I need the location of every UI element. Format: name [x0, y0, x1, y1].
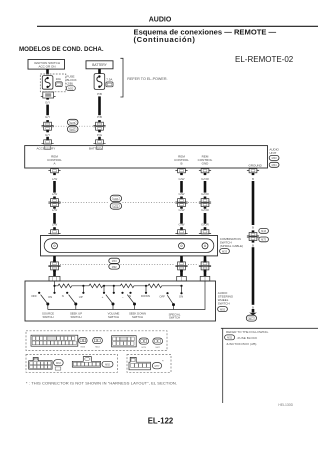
- svg-text:G/W: G/W: [179, 192, 185, 196]
- wire G/Y: [46, 105, 49, 116]
- REM CONTROL B: [174, 155, 189, 166]
- svg-text:G/OR: G/OR: [201, 192, 210, 196]
- wire G/W: [180, 213, 183, 224]
- svg-text:L/W: L/W: [52, 177, 58, 181]
- svg-text:B: B: [252, 305, 254, 309]
- svg-text:M47: M47: [70, 129, 75, 132]
- svg-text:G/W: G/W: [179, 208, 185, 212]
- refer following rule: [221, 327, 318, 329]
- steering switch ref oval: [218, 307, 228, 312]
- spiral contact circle left: [52, 243, 58, 249]
- connector ref oval M47: [67, 126, 78, 132]
- svg-text:SWITCH: SWITCH: [70, 315, 81, 319]
- REM CONTROL GND: [198, 155, 213, 166]
- wire stub to audio unit: [46, 137, 49, 140]
- wire G/OR: [204, 213, 207, 224]
- connector pair row2 right: [199, 197, 211, 209]
- resistor R1: [55, 284, 84, 288]
- fuse block label: [67, 75, 77, 86]
- svg-text:G/Y: G/Y: [45, 115, 50, 119]
- body ground symbol: [249, 309, 257, 316]
- battery box: [86, 61, 113, 69]
- svg-text:M32: M32: [68, 86, 74, 90]
- svg-text:SWITCH: SWITCH: [108, 315, 119, 319]
- svg-text:M33: M33: [112, 260, 117, 263]
- BAT pin connector on audio unit: [93, 140, 105, 144]
- header rule: [37, 25, 318, 27]
- svg-text:M92: M92: [220, 307, 226, 311]
- refer oval M32: [225, 335, 235, 340]
- svg-text:ON: ON: [179, 294, 183, 298]
- svg-text:G/W: G/W: [179, 223, 185, 227]
- ground bus bottom: [48, 281, 205, 310]
- svg-text:M92: M92: [105, 364, 110, 367]
- fuse F2 7.5A: [94, 74, 105, 90]
- seek up switch: [66, 286, 84, 310]
- wire below spiral left: [53, 256, 56, 262]
- svg-text:M44: M44: [272, 163, 278, 167]
- refer to EL-POWER bracket: [120, 58, 123, 97]
- svg-text:SWITCH: SWITCH: [132, 315, 143, 319]
- connector ref oval row2 bottom: [110, 203, 121, 209]
- connector layout dashed box row2 left: [26, 355, 118, 373]
- svg-text:P/B: P/B: [97, 92, 102, 96]
- svg-text:B: B: [252, 177, 254, 181]
- wire ignition to fuse: [46, 69, 49, 74]
- pin REM A below box: [48, 169, 60, 176]
- pin box at switch top left: [49, 276, 60, 281]
- node: bus junction dots: [53, 285, 182, 287]
- connector ref oval row2 top: [110, 195, 121, 201]
- svg-text:M43: M43: [113, 198, 118, 201]
- svg-text:M75: M75: [113, 206, 118, 209]
- svg-text:(Continuación): (Continuación): [134, 35, 196, 44]
- harness dashed line row2: [60, 202, 199, 204]
- spiral cable inner stadium: [44, 239, 214, 253]
- pin REM GND below box: [199, 169, 211, 176]
- svg-text:G/W: G/W: [179, 177, 185, 181]
- oval ref M33: [54, 360, 64, 366]
- svg-text:SWITCH: SWITCH: [42, 315, 53, 319]
- svg-text:(J/B): (J/B): [67, 81, 73, 85]
- svg-text:M77: M77: [249, 318, 254, 321]
- svg-text:+: +: [102, 295, 104, 299]
- svg-text:JUNCTION BOX (J/B): JUNCTION BOX (J/B): [226, 342, 256, 346]
- svg-text:EL-REMOTE-02: EL-REMOTE-02: [235, 55, 294, 64]
- svg-text:N: N: [129, 294, 131, 298]
- svg-text:BATTERY: BATTERY: [92, 63, 107, 67]
- connector grid M47: [112, 336, 137, 347]
- audio unit ref oval M44: [269, 162, 279, 167]
- connector grid M32: [31, 335, 78, 346]
- cross connector M92: [72, 357, 100, 368]
- spiral contact circle right: [202, 243, 208, 249]
- wire into switch: [204, 270, 207, 277]
- spiral contact circle mid: [179, 243, 185, 249]
- svg-text:M43: M43: [272, 156, 278, 160]
- connector into spiral cable: [175, 230, 187, 234]
- oval connector M44: [93, 337, 103, 348]
- combination switch spiral cable box: [41, 236, 218, 256]
- volume switch: [103, 286, 124, 310]
- svg-text:B: B: [180, 161, 182, 165]
- connector into spiral cable: [48, 230, 60, 234]
- wire into switch: [180, 270, 183, 277]
- svg-text:BATTERY: BATTERY: [89, 147, 103, 151]
- connector pair M75 (ignition feed): [42, 120, 54, 132]
- connector pair row2 left: [48, 197, 60, 209]
- special switch: [166, 286, 182, 310]
- svg-text:HEL130D: HEL130D: [278, 403, 293, 407]
- fuse block ref oval M32: [66, 86, 75, 91]
- wire below spiral right: [204, 256, 207, 262]
- svg-text:G/OR: G/OR: [201, 177, 210, 181]
- fuse number box 3: [56, 82, 63, 87]
- svg-text:N: N: [62, 294, 64, 298]
- svg-text:(SPIRAL CABLE): (SPIRAL CABLE): [220, 244, 243, 248]
- svg-text:EL-122: EL-122: [148, 416, 174, 425]
- switch name labels: [42, 312, 181, 320]
- svg-text:MODELOS DE COND. DCHA.: MODELOS DE COND. DCHA.: [19, 46, 104, 53]
- harness dashed line row1: [53, 125, 93, 127]
- svg-text:M33: M33: [56, 362, 61, 365]
- svg-text:AUDIO: AUDIO: [149, 17, 172, 24]
- pin box at switch top right: [200, 276, 210, 281]
- pin box at switch top mid: [177, 276, 187, 281]
- svg-text:ACCESSORY: ACCESSORY: [37, 147, 56, 151]
- svg-text:M75: M75: [70, 122, 75, 125]
- ground ref oval upper: [259, 229, 269, 234]
- svg-text:M32: M32: [227, 336, 233, 340]
- svg-text:P/G: P/G: [97, 133, 103, 137]
- source switch: [38, 292, 56, 310]
- svg-text:OFF: OFF: [31, 294, 37, 298]
- svg-text:-FUSE BLOCK: -FUSE BLOCK: [237, 336, 259, 340]
- wire stub: [53, 227, 56, 230]
- wire into switch: [53, 270, 56, 277]
- connector pair row3 left: [48, 260, 60, 272]
- svg-text:REFER TO THE FOLLOWING.: REFER TO THE FOLLOWING.: [226, 330, 269, 334]
- connector ref oval row3 bottom: [109, 264, 120, 269]
- svg-text:UP: UP: [79, 295, 83, 299]
- wire stub to audio unit: [98, 137, 101, 140]
- wire below spiral mid: [180, 256, 183, 262]
- svg-text:M77: M77: [155, 365, 160, 368]
- ignition switch box: [28, 60, 65, 70]
- wire P/B: [98, 96, 101, 115]
- svg-text:OFF: OFF: [159, 294, 165, 298]
- svg-text:M43: M43: [261, 230, 266, 233]
- connector layout dashed box row2 right: [127, 355, 171, 373]
- wire battery to fuse: [98, 69, 101, 74]
- svg-text:G/Y: G/Y: [45, 133, 50, 137]
- ACC pin connector on audio unit: [42, 140, 54, 144]
- connector pair M47 (battery feed): [93, 120, 105, 132]
- refer following vertical rule: [222, 328, 224, 403]
- wire G/OR: [204, 181, 207, 193]
- connector pair row3 right: [199, 260, 211, 272]
- ground wire B lower: [252, 247, 255, 305]
- svg-text:SWITCH: SWITCH: [218, 301, 230, 305]
- fuse number box 10: [106, 82, 113, 87]
- harness dashed line row3: [60, 264, 199, 266]
- ground wire B upper: [252, 181, 255, 225]
- oval connector M75: [139, 338, 149, 349]
- svg-text:REFER TO EL-POWER.: REFER TO EL-POWER.: [127, 77, 167, 81]
- svg-text:B: B: [252, 226, 254, 230]
- oval ref M92: [102, 361, 113, 367]
- T connector M77: [129, 357, 150, 369]
- REM CONTROL A: [47, 155, 62, 166]
- wire L/W: [53, 181, 56, 193]
- connector pair row2 mid: [175, 197, 187, 209]
- combination switch label: [220, 237, 243, 248]
- wire stub: [180, 227, 183, 230]
- audio unit box: [25, 146, 268, 168]
- svg-text:A: A: [53, 161, 55, 165]
- wire pin drop to bus: [54, 281, 56, 293]
- resistor R3: [120, 284, 148, 288]
- connector pair on ground wire: [247, 230, 259, 242]
- ground ref oval M77: [246, 315, 256, 321]
- wire stub: [204, 227, 207, 230]
- oval connector M43: [79, 337, 88, 348]
- svg-text:* : THIS CONNECTOR IS NOT SHOW: * : THIS CONNECTOR IS NOT SHOWN IN “HARN…: [26, 380, 177, 385]
- connector layout dashed box row1: [26, 331, 167, 351]
- svg-text:G/Y: G/Y: [45, 100, 50, 104]
- svg-text:7.5A: 7.5A: [106, 77, 112, 81]
- pin GROUND below box: [247, 169, 259, 176]
- fuse F1 10A: [42, 76, 53, 90]
- svg-text:M75: M75: [261, 239, 266, 242]
- svg-text:SWITCH: SWITCH: [169, 316, 180, 320]
- wire G/W: [180, 181, 183, 193]
- J/B exit connector: [41, 92, 56, 100]
- connector ref oval row3 top: [109, 258, 120, 263]
- svg-text:M33: M33: [222, 249, 228, 253]
- svg-text:M92: M92: [112, 266, 117, 269]
- AUDIO UNIT label: [269, 147, 279, 154]
- svg-text:DOWN: DOWN: [141, 294, 150, 298]
- svg-text:UNIT: UNIT: [269, 151, 276, 155]
- resistor bus: [55, 281, 182, 293]
- connector ref oval M75: [67, 119, 78, 125]
- svg-text:B: B: [252, 243, 254, 247]
- audio unit ref oval M43: [269, 155, 279, 160]
- svg-text:GROUND: GROUND: [249, 164, 263, 168]
- small id box: [55, 367, 61, 370]
- ground ref oval lower: [259, 237, 269, 242]
- audio steering wheel switch label: [218, 291, 234, 305]
- resistor R2: [83, 284, 120, 288]
- svg-text:G/OR: G/OR: [201, 208, 210, 212]
- wire L/W: [53, 213, 56, 224]
- svg-text:GND: GND: [202, 161, 210, 165]
- svg-text:G/OR: G/OR: [201, 223, 210, 227]
- svg-text:ACC OR ON: ACC OR ON: [38, 65, 55, 69]
- svg-text:P/B: P/B: [97, 115, 102, 119]
- svg-text:ON: ON: [48, 295, 52, 299]
- svg-text:L/W: L/W: [52, 208, 58, 212]
- svg-text:10A: 10A: [56, 77, 61, 81]
- oval connector M47b: [153, 338, 163, 349]
- oval ref M77: [152, 363, 161, 369]
- svg-text:L/W: L/W: [52, 192, 58, 196]
- svg-text:L/W: L/W: [52, 223, 58, 227]
- audio steering wheel switch box: [25, 281, 216, 321]
- connector pair row3 mid: [175, 260, 187, 272]
- pin REM B below box: [175, 169, 187, 176]
- svg-text:−: −: [122, 295, 124, 299]
- connector into spiral cable: [199, 230, 211, 234]
- resistor R4: [148, 284, 182, 288]
- stepped connector M33: [29, 358, 52, 370]
- seek down switch: [127, 286, 147, 310]
- fuse block dashed box: [40, 74, 66, 92]
- combination switch ref oval: [220, 249, 230, 254]
